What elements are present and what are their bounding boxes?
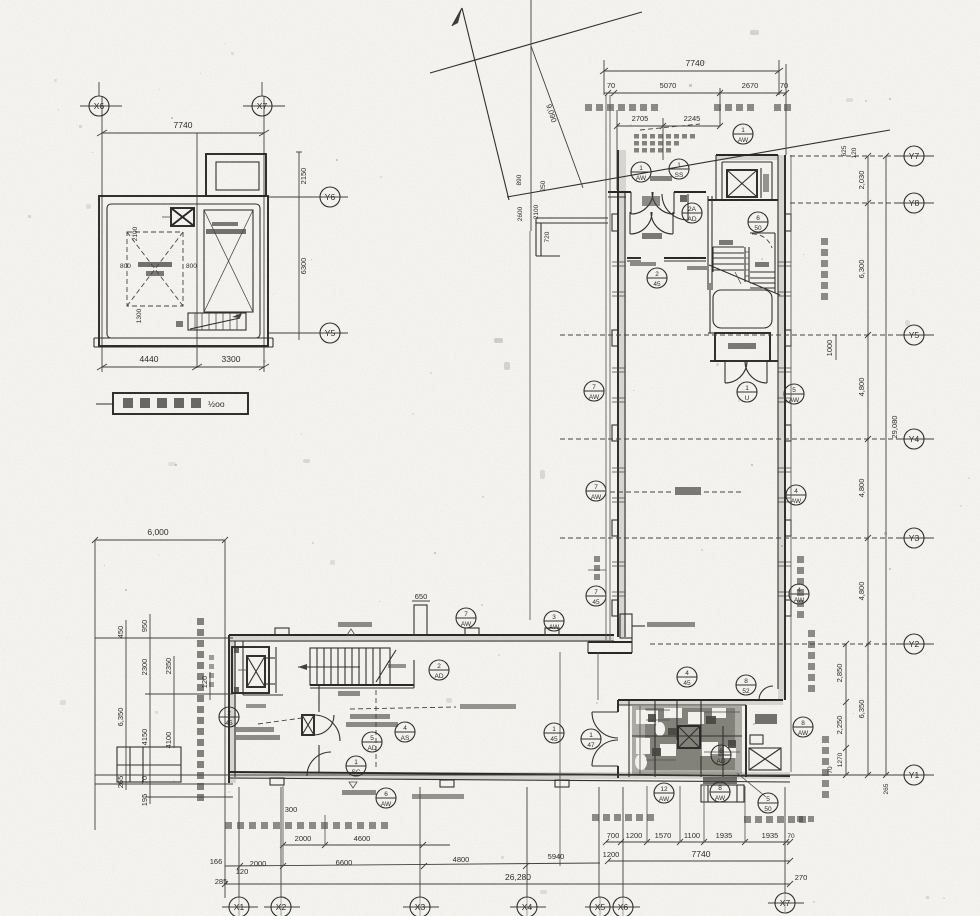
grid bubble Y2 — [904, 634, 924, 654]
grid bubble X5 — [585, 787, 614, 916]
dashed partition lower wing — [375, 690, 377, 770]
chimney jut 650 — [412, 592, 430, 635]
label ポーチ — [650, 176, 672, 181]
lower wing top wall — [229, 635, 614, 641]
toilet dim row 700/1200/1570/1100/1935/1935/70 — [603, 786, 795, 845]
grid line X6 (penthouse) — [80, 96, 122, 372]
dim chain right 2030/6300/4800s/6350 — [857, 153, 871, 778]
penthouse bottom dims 4440 3300 — [97, 354, 269, 370]
fixture bubble 2/45 at (657,278) — [647, 268, 667, 288]
toilet block left wall — [617, 700, 619, 778]
title box 塔屋平面図 1/100 — [96, 393, 248, 414]
corridor wall y283 — [708, 196, 712, 290]
water tank (right) — [204, 210, 253, 312]
penthouse mid vertical partition line — [196, 133, 198, 368]
left dim verticals — [126, 614, 210, 804]
grid bubble Y4 — [904, 429, 924, 449]
grid bubble X3 — [403, 787, 439, 916]
stair break line — [709, 265, 780, 295]
elevator (lower wing) — [232, 647, 275, 693]
dim row left 2000/6600/4800/5940 — [210, 852, 600, 869]
dimension 7740 top of penthouse — [97, 120, 269, 136]
grid bubble Y3 — [904, 528, 924, 548]
grid bubble Y7 — [904, 146, 924, 166]
kanji note column at junction — [588, 556, 606, 580]
grid bubble X4 — [510, 787, 546, 916]
grid line Y3 — [560, 537, 934, 539]
upper wing left exterior wall — [618, 150, 625, 637]
grid line Y1 — [95, 774, 934, 776]
fixture bubble 1/AW at (641,172) — [631, 162, 651, 182]
dim line 9,090 along boundary — [531, 46, 583, 188]
fixture bubble 2A/AD at (692,213) — [682, 203, 702, 223]
kanji row bottom mid — [592, 814, 654, 821]
fixture bubble 7/AW at (596,491) — [586, 481, 606, 501]
junction corner wall step — [588, 638, 632, 653]
interior wall below stair — [318, 684, 320, 772]
toilet entry double doors — [592, 712, 618, 766]
dim 300 small — [283, 786, 325, 866]
leader to 5/50 bubble — [737, 773, 766, 797]
grid bubble X7 — [252, 82, 272, 116]
south double door arcs of reception — [710, 361, 778, 383]
main stair up-run — [713, 247, 744, 272]
toilet fixtures hatch zone — [632, 700, 742, 777]
rotated small dims near west entrance — [516, 174, 551, 242]
fixture bubble 1/U at (747,392) — [737, 382, 757, 402]
laundry hook note top 物干金物受 — [338, 622, 372, 635]
site boundary shallow line (south) — [507, 130, 890, 197]
fixture bubble 1/45 at (554,733) — [544, 723, 564, 743]
grid bubble X7 — [768, 787, 804, 913]
site boundary steep line with north arrow — [452, 8, 509, 200]
extension verticals beside upper wing — [606, 95, 791, 772]
fixture bubble 8/AW at (720,792) — [710, 782, 730, 802]
dim 6,000 top left of lower wing — [92, 527, 228, 543]
fence wall west of entrance — [536, 218, 608, 256]
penthouse base slab — [94, 338, 273, 347]
kanji column right bottom — [797, 630, 829, 822]
grid bubble Y5 — [904, 325, 924, 345]
top wall column bumps — [275, 628, 559, 635]
left dim horizontals — [95, 638, 233, 797]
inner hall double door arcs — [630, 212, 673, 234]
dim row 7740 bottom — [603, 849, 793, 864]
elevator car with X — [727, 170, 757, 197]
south porch step (toilet block) — [701, 777, 744, 802]
bath box with X — [678, 726, 700, 748]
main stair down-run — [750, 233, 775, 293]
stair hall walls — [243, 641, 283, 695]
hall south wall with door opening — [627, 258, 706, 261]
fixture bubble 4/AW at (796,495) — [786, 485, 806, 505]
fixture bubble 6/AW at (386,798) — [376, 788, 396, 808]
grid line Y7 — [790, 155, 934, 157]
column bumps on right wall — [785, 214, 791, 616]
kanji column 道路斜線 right — [821, 238, 828, 300]
handrail note アルミ化粧手摺 — [412, 794, 464, 799]
label 8巻ドア / 4階段 — [630, 262, 707, 270]
hall door single arc — [662, 194, 688, 220]
dim row 2000 4600 inner — [280, 834, 450, 848]
bottom wall column bumps — [270, 778, 569, 787]
kanji column site notes (x200) — [197, 618, 204, 801]
dim 7740 top of main plan — [600, 58, 783, 95]
grid line Y5 — [560, 334, 934, 336]
kanji column right mid — [797, 556, 804, 618]
fixture bubble 6/50 at (758,222) — [748, 212, 768, 232]
note row kanji top — [585, 104, 791, 111]
fixture bubble 5/50 at (768,803) — [758, 793, 778, 813]
fixture bubble 4/AW at (799,594) — [789, 584, 809, 604]
grid line Y2 — [650, 643, 934, 645]
fixture bubble 1/SC at (356,766) — [346, 756, 366, 776]
grid bubble Y8 — [904, 193, 924, 213]
fixture bubble 5/AW at (794,394) — [784, 384, 804, 404]
grid line Y4 — [560, 438, 934, 440]
fixture bubble 2/45 at (229,717) — [219, 707, 239, 727]
column bumps on left wall — [612, 214, 618, 616]
X5 extension through courtyard — [597, 652, 599, 700]
lower wing bottom wall — [229, 772, 790, 782]
west porch steps — [117, 747, 181, 782]
tank label 高架水槽 FRP (left) — [120, 262, 197, 276]
label オドリバ — [388, 664, 406, 668]
toilet partition wall x629 — [628, 700, 630, 777]
small white cabinet — [750, 735, 763, 744]
dim 625 top right — [841, 145, 858, 158]
note 中空回転戸 (left) — [236, 718, 302, 740]
penthouse roof upper box — [206, 154, 266, 196]
main stair center rail — [745, 247, 749, 282]
dimension 2150 right of penthouse — [296, 152, 308, 340]
upper wing right exterior wall — [778, 155, 785, 700]
penthouse outer wall — [99, 196, 268, 346]
grid bubble X6 — [612, 787, 640, 916]
fixture bubble 12/AW at (664,793) — [654, 783, 674, 803]
fixture bubble 4/45 at (687,677) — [677, 667, 697, 687]
door arc at bottom wall — [307, 752, 331, 776]
fixture bubble 2/AD at (439,670) — [429, 660, 449, 680]
fixture bubble 6/AD at (721,755) — [711, 745, 731, 765]
wall below elevator — [708, 199, 778, 201]
PS shaft with X (bottom right) — [749, 748, 781, 770]
wall fill bands — [229, 150, 790, 783]
laundry hook note bottom 物干金物受 — [342, 782, 376, 795]
fixture bubble 1/SS at (679,169) — [669, 159, 689, 179]
fixture bubble 1/AW at (743,134) — [733, 124, 753, 144]
porch front wall with entrance opening — [608, 192, 706, 197]
lower wing left exterior wall — [229, 635, 235, 783]
office room dashed label 事務室 — [610, 487, 742, 495]
leader note ビニルクロス貼り (3 rows) — [634, 124, 700, 153]
kanji row bottom left — [225, 822, 388, 829]
fixture bubble 3/AW at (554,621) — [544, 611, 564, 631]
grid bubble X1 — [222, 787, 258, 916]
water tank FRP (dashed, left) — [127, 232, 183, 306]
dim 70 5070 2670 70 — [604, 81, 789, 96]
kanji row bottom right — [744, 816, 806, 823]
shoe cabinet dark — [680, 195, 687, 202]
label ポーチ (lower) — [246, 704, 266, 708]
dimension 6300 right of penthouse — [299, 258, 308, 275]
grid bubble Y6 (penthouse) — [268, 187, 348, 207]
hatch box symbol (vent) — [162, 208, 194, 226]
fixture bubble 5/AD at (372,742) — [362, 732, 382, 752]
grid bubble Y1 — [904, 765, 924, 785]
corridor wall right of elevator — [275, 647, 277, 693]
site boundary shallow line (north) — [430, 12, 642, 73]
kanji column small (x210 upper) — [209, 655, 214, 687]
door arc at right wall top of toilets — [759, 686, 773, 700]
dim total 26,280 — [215, 867, 808, 887]
door arc near stair top — [752, 234, 772, 248]
site boundary vertical mid x=530 — [529, 231, 531, 620]
reception box 受付広間 — [708, 333, 770, 361]
penthouse stair — [176, 313, 246, 330]
site vertical boundary x=531 — [530, 0, 532, 231]
fixture bubble 7/AW at (594,391) — [584, 381, 604, 401]
machine room right of elevator — [761, 168, 769, 198]
dim 2705 2245 — [614, 64, 786, 190]
dim 2850 2250 1270 right bottom — [827, 641, 890, 794]
extension line x560 — [559, 652, 561, 866]
elevator shaft outer wall (top) — [716, 155, 778, 200]
toilet block top wall — [618, 700, 783, 705]
entrance mat/step — [642, 196, 660, 206]
window sill ticks on exterior walls — [612, 262, 791, 596]
leader note 1.2階スチールサッシ — [346, 704, 516, 727]
grid bubble X6 — [89, 82, 109, 116]
labels 上ル 下ル — [719, 240, 769, 267]
dim 1000 sub right — [825, 335, 836, 360]
grid bubble X2 — [264, 787, 300, 916]
fixture bubble 8/AW at (803,727) — [793, 717, 813, 737]
dim total 29,080 right — [883, 153, 899, 778]
revolving door with X box — [302, 715, 340, 741]
left boundary verticals — [95, 540, 225, 898]
label 広間 — [642, 233, 662, 239]
grid line Y8 — [790, 202, 934, 204]
grid bubble Y5 (penthouse) — [268, 323, 348, 343]
grid line X7 (penthouse) — [243, 96, 285, 372]
dim 2100 left inside — [132, 226, 143, 323]
fixture bubble 1/47 at (591,739) — [581, 729, 601, 749]
gas meter box at inner corner — [620, 614, 695, 638]
stair (lower wing) treads — [298, 648, 396, 685]
room below stair (rounded) — [710, 283, 772, 333]
entrance double door arcs — [631, 192, 674, 214]
fixture bubble 7/AW at (466,618) — [456, 608, 476, 628]
tank label ポンプ室 (right) — [206, 222, 246, 234]
fixture bubble 4/AS at (405,732) — [395, 722, 415, 742]
utility room 器具庫 — [746, 705, 777, 777]
fixture bubble 7/45 at (596,596) — [586, 586, 606, 606]
stair room south wall — [310, 660, 414, 696]
fixture bubble 8/52 at (746,685) — [736, 675, 756, 695]
